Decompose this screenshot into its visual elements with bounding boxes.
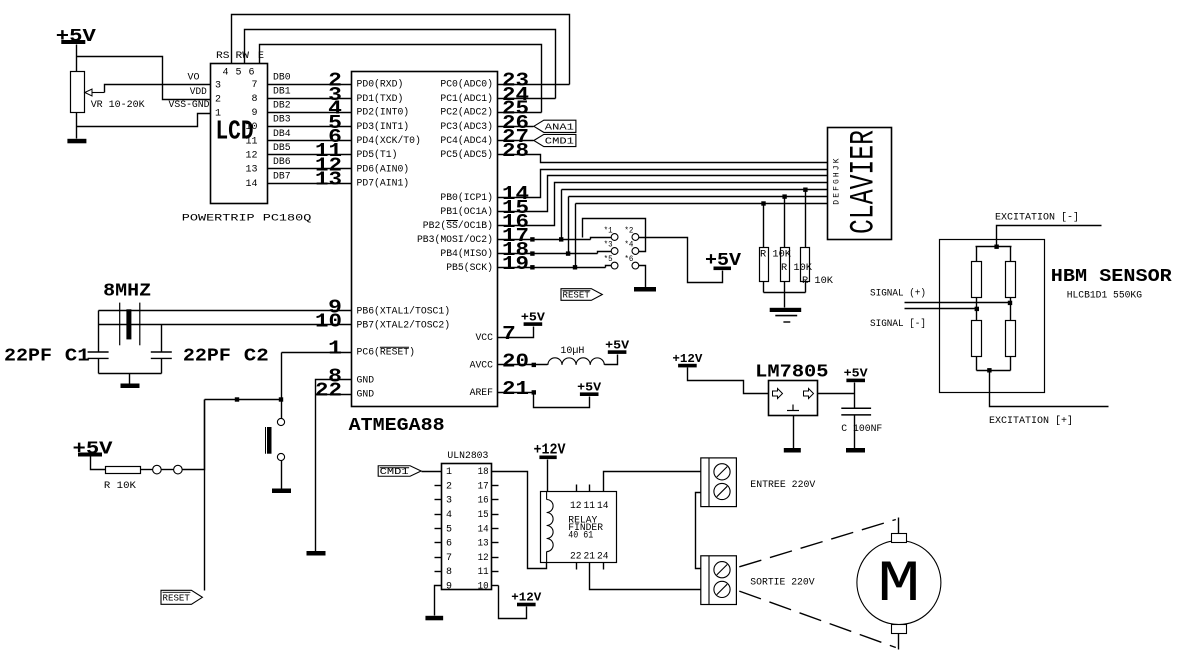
net flag CMD1 at ULN input <box>378 466 421 477</box>
ATMEGA pin label VCC <box>475 333 493 344</box>
ATMEGA pin number 13 <box>315 169 342 191</box>
svg-text:DB2: DB2 <box>273 101 291 112</box>
wire bridge top-left <box>976 247 978 262</box>
ATMEGA pin number 6 <box>328 126 342 148</box>
svg-text:24: 24 <box>597 552 609 563</box>
ground under LM7805 <box>784 448 801 453</box>
clavier pin letter G <box>833 179 842 184</box>
crystal X1 8MHZ <box>120 303 140 346</box>
ATMEGA pin label AVCC <box>470 361 493 372</box>
svg-text:EXCITATION [-]: EXCITATION [-] <box>995 212 1079 224</box>
junction signal minus <box>975 307 979 311</box>
junction on reset net <box>235 397 239 401</box>
junction clavier E to resistor <box>782 194 786 198</box>
svg-text:R 10K: R 10K <box>802 276 833 287</box>
wire output riser to +5V <box>854 383 856 394</box>
svg-text:EXCITATION [+]: EXCITATION [+] <box>989 415 1073 427</box>
junction reset net at button <box>279 397 283 401</box>
wire PC0 row to bus <box>498 84 570 86</box>
svg-text:22PF: 22PF <box>4 347 52 367</box>
relay stub pin 12 <box>576 485 578 492</box>
ground under capacitor C3 <box>846 448 865 453</box>
svg-text:14: 14 <box>597 501 609 512</box>
ATMEGA pin label PD7(AIN1) <box>357 178 410 190</box>
svg-text:SORTIE 220V: SORTIE 220V <box>750 578 814 589</box>
ATMEGA pin number 28 <box>502 140 529 162</box>
ULN pin number 2 <box>446 481 452 492</box>
label 8MHZ <box>103 281 151 301</box>
LCD pin number 11 <box>245 136 257 147</box>
wire PC5 to clavier pin K <box>498 155 828 163</box>
svg-text:7: 7 <box>446 553 452 564</box>
ATMEGA pin number 5 <box>328 112 342 134</box>
wire LCD DB3 to ATMEGA PD3 <box>268 126 352 128</box>
ULN pin number 8 <box>446 567 452 578</box>
ULN pin number 1 <box>446 467 452 478</box>
wire LCD DB1 to ATMEGA PD1 <box>268 98 352 100</box>
ULN left stub pin 4 <box>435 514 442 516</box>
ULN pin number 15 <box>478 510 489 521</box>
wire rail to ground <box>129 374 131 384</box>
label SORTIE 220V <box>750 578 814 589</box>
svg-text:PD5(T1): PD5(T1) <box>357 149 398 161</box>
ULN left stub pin 8 <box>435 571 442 573</box>
svg-text:6: 6 <box>248 68 254 79</box>
svg-text:PD6(AIN0): PD6(AIN0) <box>357 163 410 175</box>
svg-text:H: H <box>833 172 842 177</box>
ATMEGA pin label PD6(AIN0) <box>357 163 410 175</box>
svg-text:G: G <box>833 179 842 184</box>
wire +5V to resistor R4 <box>91 457 106 470</box>
label LM7805 <box>755 363 828 383</box>
LCD pin number 13 <box>245 165 257 176</box>
svg-text:HBM SENSOR: HBM SENSOR <box>1051 267 1172 287</box>
svg-text:PC1(ADC1): PC1(ADC1) <box>440 93 493 105</box>
ULN left stub pin 2 <box>435 485 442 487</box>
svg-text:22: 22 <box>570 552 582 563</box>
wire bus LCD RW to PC1 <box>245 30 556 99</box>
wire to capacitor C1 <box>98 311 100 353</box>
ATMEGA pin label PC2(ADC2) <box>440 107 493 119</box>
wire LCD DB7 to ATMEGA PD7 <box>268 183 352 185</box>
svg-text:ATMEGA88: ATMEGA88 <box>349 416 445 436</box>
ATMEGA pin label PC1(ADC1) <box>440 93 493 105</box>
LM7805 ground symbol <box>787 405 799 411</box>
wire bridge bottom node <box>977 370 1011 372</box>
LCD pin number 8 <box>251 94 257 105</box>
ULN pin number 14 <box>478 524 489 535</box>
svg-text:PB1(OC1A): PB1(OC1A) <box>440 206 493 218</box>
ISP pad *2 <box>632 234 639 241</box>
label ATMEGA88 <box>349 416 445 436</box>
ULN pin number 16 <box>478 496 489 507</box>
svg-text:1: 1 <box>446 467 452 478</box>
svg-text:3: 3 <box>446 496 452 507</box>
svg-text:14: 14 <box>245 179 257 190</box>
wire ULN pin 18 to relay coil <box>492 472 547 569</box>
ATMEGA pin number 20 <box>502 351 529 373</box>
power symbol +5V at LM7805 output <box>844 368 868 383</box>
LCD data label DB4 <box>273 129 291 140</box>
ULN pin number 12 <box>478 553 489 564</box>
svg-text:GND: GND <box>357 375 375 386</box>
svg-text:LM7805: LM7805 <box>755 363 828 383</box>
ULN pin number 10 <box>478 582 489 593</box>
ATMEGA pin number 24 <box>502 84 529 106</box>
power symbol +12V at LM7805 input <box>672 353 702 368</box>
svg-text:J: J <box>833 165 842 170</box>
LCD pin number 1 <box>215 109 221 120</box>
svg-text:7: 7 <box>251 80 257 91</box>
wire PB2 to clavier pin G <box>498 183 828 226</box>
dashed line SORTIE to motor bottom <box>739 591 896 647</box>
relay stub pin 11 <box>589 485 591 492</box>
LCD data label DB5 <box>273 143 291 154</box>
svg-text:21: 21 <box>584 552 596 563</box>
overline on PC6 RESET <box>380 346 409 348</box>
svg-text:8: 8 <box>251 94 257 105</box>
svg-text:10: 10 <box>245 122 257 133</box>
svg-text:13: 13 <box>315 169 342 191</box>
svg-text:20: 20 <box>502 351 529 373</box>
label LCD <box>216 117 254 147</box>
wire jumper to reset net <box>183 400 205 470</box>
ULN right stub pin 11 <box>492 571 499 573</box>
LCD pin number 6 <box>248 68 254 79</box>
ATMEGA pin number 21 <box>502 378 529 400</box>
junction PB3 riser <box>559 237 563 241</box>
power symbol +5V at AVCC <box>605 339 629 354</box>
ULN left stub pin 7 <box>435 557 442 559</box>
svg-text:22PF: 22PF <box>183 347 231 367</box>
wire reset net horizontal <box>205 399 282 401</box>
ATMEGA pin label PB5(SCK) <box>446 262 493 274</box>
svg-text:AREF: AREF <box>470 388 493 399</box>
ATMEGA pin number 22 <box>315 380 342 402</box>
svg-text:11: 11 <box>245 136 257 147</box>
ATMEGA pin label PB0(ICP1) <box>440 192 493 204</box>
label C 100NF <box>841 424 882 435</box>
wire reset net riser to PC6 <box>281 353 283 400</box>
label M motor <box>877 553 920 618</box>
power symbol +5V at AREF <box>577 381 601 396</box>
wire clavier F to resistor R3 <box>805 190 807 248</box>
capacitor C1 22PF <box>88 352 109 358</box>
LM7805 output arrow <box>804 389 814 399</box>
net flag RESET at ISP <box>561 289 602 301</box>
label HLCB1D1 550KG <box>1067 291 1142 302</box>
svg-text:CMD1: CMD1 <box>545 136 574 147</box>
ATMEGA pin label PB7(XTAL2/TOSC2) <box>357 319 451 331</box>
relay stub pin 22 <box>576 563 578 570</box>
svg-text:DB3: DB3 <box>273 115 291 126</box>
ISP pad *1 <box>611 234 618 241</box>
wire LCD DB0 to ATMEGA PD0 <box>268 84 352 86</box>
svg-text:ULN2803: ULN2803 <box>447 451 488 462</box>
ATMEGA pin number 18 <box>502 239 529 261</box>
svg-text:M: M <box>877 553 920 618</box>
net flag CMD1 <box>534 134 576 146</box>
wire clavier E to resistor R2 <box>784 197 786 248</box>
svg-text:4: 4 <box>446 510 452 521</box>
svg-text:DB1: DB1 <box>273 87 291 98</box>
wire potentiometer bottom to ground <box>76 113 78 139</box>
LCD pin label VO <box>188 72 200 83</box>
svg-text:RS: RS <box>216 51 230 62</box>
wire bridge bottom-left <box>976 357 978 371</box>
ground for ATMEGA GND pins <box>307 551 326 556</box>
ATMEGA pin number 27 <box>502 126 529 148</box>
power symbol +5V (potentiometer supply) <box>56 27 96 47</box>
label R 10K (R2) <box>781 263 812 274</box>
ATMEGA pin number 14 <box>502 183 529 205</box>
svg-text:SIGNAL (+): SIGNAL (+) <box>870 288 926 300</box>
wire bridge bottom-right <box>1010 357 1012 371</box>
label FINDER <box>568 523 603 534</box>
label VR 10-20K <box>91 100 145 111</box>
svg-text:12: 12 <box>245 150 257 161</box>
inductor L1 10uH <box>548 358 604 365</box>
svg-text:PB7(XTAL2/TOSC2): PB7(XTAL2/TOSC2) <box>357 319 451 331</box>
ATMEGA pin number 2 <box>328 70 342 92</box>
dashed line SORTIE to motor top <box>739 520 896 567</box>
ATMEGA pin number 4 <box>328 98 342 120</box>
LCD pin number 7 <box>251 80 257 91</box>
wire AVCC to inductor <box>498 364 548 366</box>
label R 10K reset <box>104 481 136 492</box>
wire ULN pin 9 to ground <box>435 586 442 616</box>
svg-text:HLCB1D1 550KG: HLCB1D1 550KG <box>1067 291 1142 302</box>
ATMEGA pin label PC4(ADC4) <box>440 135 493 147</box>
relay coil <box>547 492 554 562</box>
junction on AVCC wire <box>532 363 536 367</box>
ULN pin number 9 <box>446 582 452 593</box>
relay stub pin 24 <box>603 563 605 570</box>
LCD data label DB3 <box>273 115 291 126</box>
junction PB4 riser <box>566 251 570 255</box>
ULN pin number 7 <box>446 553 452 564</box>
wire VCC to +5V <box>498 327 534 338</box>
ATMEGA pin number 26 <box>502 112 529 134</box>
wire signal plus <box>905 302 1011 304</box>
LCD data label DB0 <box>273 72 291 83</box>
wire capacitor ground rail <box>99 373 162 375</box>
svg-text:ENTREE 220V: ENTREE 220V <box>750 480 815 491</box>
svg-text:12: 12 <box>570 501 582 512</box>
label HBM SENSOR <box>1051 267 1172 287</box>
wire PB3 into pad *1 <box>591 238 612 240</box>
svg-text:RW: RW <box>236 51 250 62</box>
ISP pad label *2 <box>624 227 633 236</box>
LCD pin number 4 <box>222 68 228 79</box>
junction on AREF wire <box>532 390 536 394</box>
svg-text:VR 10-20K: VR 10-20K <box>91 100 145 111</box>
svg-text:10µH: 10µH <box>560 346 584 357</box>
svg-text:6: 6 <box>446 539 452 550</box>
svg-text:SIGNAL [-]: SIGNAL [-] <box>870 318 926 330</box>
wire to capacitor C2 <box>161 325 163 353</box>
label C1 <box>65 347 90 367</box>
svg-text:E: E <box>833 193 842 198</box>
ISP pad *4 <box>632 248 639 255</box>
wire PC1 row to bus <box>498 98 556 100</box>
svg-text:PC6(RESET): PC6(RESET) <box>357 347 416 359</box>
svg-text:PB4(MISO): PB4(MISO) <box>440 248 493 260</box>
wire to capacitor C3 <box>854 394 856 409</box>
label R 10K (R1) <box>760 250 791 261</box>
ATMEGA pin label PB6(XTAL1/TOSC1) <box>357 306 451 318</box>
wire AREF loop to +5V <box>534 393 590 408</box>
wire LCD VSS-GND pin 1 to ground net <box>77 114 211 127</box>
overline on PB2 SS <box>446 220 458 222</box>
ISP pad label *3 <box>604 241 613 250</box>
wire R2 bottom to rail <box>784 282 786 293</box>
ULN right stub pin 16 <box>492 499 499 501</box>
svg-text:POWERTRIP PC180Q: POWERTRIP PC180Q <box>182 214 311 225</box>
ATMEGA pin number 1 <box>328 338 342 360</box>
ATMEGA pin label PB1(OC1A) <box>440 206 493 218</box>
wire PB5 riser to clavier D row <box>575 204 577 268</box>
svg-text:PC5(ADC5): PC5(ADC5) <box>440 149 493 161</box>
wire LCD DB6 to ATMEGA PD6 <box>268 168 352 170</box>
svg-text:*2: *2 <box>624 227 633 236</box>
svg-text:PD7(AIN1): PD7(AIN1) <box>357 178 410 190</box>
wire excitation minus to bridge top <box>997 226 1102 247</box>
ULN pin number 13 <box>478 539 489 550</box>
ground under button <box>272 489 291 494</box>
wire reset net to RESET flag <box>204 400 206 591</box>
ULN right stub pin 14 <box>492 528 499 530</box>
label EXCITATION plus <box>989 415 1073 427</box>
ATMEGA pin label PD2(INT0) <box>357 107 410 119</box>
junction on PB5 row <box>530 265 534 269</box>
ground under crystal <box>121 384 140 389</box>
bridge resistor bottom-left <box>972 321 982 357</box>
terminal block SORTIE <box>701 556 737 605</box>
svg-text:10: 10 <box>478 582 489 593</box>
svg-text:*3: *3 <box>604 241 613 250</box>
wire C2 bottom <box>161 359 163 374</box>
label EXCITATION minus <box>995 212 1079 224</box>
svg-text:15: 15 <box>478 510 489 521</box>
LCD data label DB7 <box>273 171 291 182</box>
svg-text:10: 10 <box>315 310 342 332</box>
ULN left stub pin 3 <box>435 499 442 501</box>
svg-text:7: 7 <box>502 323 516 345</box>
wire GND pin 8 <box>316 380 352 552</box>
svg-text:C1: C1 <box>65 347 90 367</box>
wire bridge right mid <box>1010 298 1012 321</box>
ATMEGA pin label PC6(RESET) <box>357 347 416 359</box>
wire clavier D to resistor R1 <box>763 204 765 248</box>
svg-text:VCC: VCC <box>475 333 493 344</box>
wire PB4 row to ISP <box>498 253 598 255</box>
earth ground under resistors <box>770 308 802 322</box>
ULN left stub pin 6 <box>435 542 442 544</box>
ATMEGA pin label PC3(ADC3) <box>440 121 493 133</box>
wire PB3 row to ISP <box>498 239 591 241</box>
svg-text:1: 1 <box>215 109 221 120</box>
relay pin label 11 <box>584 501 596 512</box>
wire pad *6 to ground <box>639 266 646 288</box>
LCD pin label VSS-GND <box>169 100 210 111</box>
svg-text:VDD: VDD <box>190 87 207 98</box>
svg-text:*1: *1 <box>604 227 613 236</box>
wire +5V branch to LCD VDD pin 2 <box>77 57 211 100</box>
resistor R1 10K body <box>760 248 769 282</box>
wire motor top stub <box>898 518 900 534</box>
label SIGNAL minus <box>870 318 926 330</box>
ISP pad *3 <box>611 248 618 255</box>
ATMEGA pin number 15 <box>502 197 529 219</box>
ATMEGA pin number 7 <box>502 323 516 345</box>
LCD pin number 5 <box>235 68 241 79</box>
ISP pad label *4 <box>624 241 633 250</box>
wire bridge left mid <box>976 298 978 321</box>
wire clavier pin E row <box>569 196 828 198</box>
svg-text:PB5(SCK): PB5(SCK) <box>446 262 493 274</box>
ATMEGA pin number 12 <box>315 154 342 176</box>
wire inductor to +5V <box>605 355 618 365</box>
wire AREF <box>498 392 534 394</box>
label 22PF (C1) <box>4 347 52 367</box>
ULN right stub pin 17 <box>492 485 499 487</box>
svg-text:13: 13 <box>478 539 489 550</box>
wire +12V to LM7805 input <box>688 368 769 394</box>
driver U4 ULN2803 body <box>442 464 492 590</box>
wire ENTREE bottom to SORTIE top <box>696 493 701 569</box>
svg-text:*4: *4 <box>624 241 633 250</box>
wire signal minus <box>905 308 977 310</box>
label SIGNAL plus <box>870 288 926 300</box>
ATMEGA pin number 9 <box>328 297 342 319</box>
svg-text:PB6(XTAL1/TOSC1): PB6(XTAL1/TOSC1) <box>357 306 451 318</box>
svg-text:VO: VO <box>188 72 200 83</box>
svg-text:R 10K: R 10K <box>760 250 791 261</box>
svg-text:PB0(ICP1): PB0(ICP1) <box>440 192 493 204</box>
svg-text:C2: C2 <box>244 347 269 367</box>
ATMEGA pin label PD3(INT1) <box>357 121 410 133</box>
ULN pin number 4 <box>446 510 452 521</box>
ISP pad label *6 <box>624 255 633 264</box>
svg-text:RESET: RESET <box>163 592 191 603</box>
svg-text:11: 11 <box>478 567 489 578</box>
wire rail to earth ground <box>784 293 786 308</box>
ULN right stub pin 15 <box>492 514 499 516</box>
ULN right stub pin 10 <box>492 585 499 587</box>
junction PB5 riser <box>573 265 577 269</box>
svg-text:4: 4 <box>222 68 228 79</box>
clavier pin letter K <box>833 158 842 163</box>
wire bus LCD RS to PC0 <box>232 15 570 85</box>
ATMEGA pin label PD1(TXD) <box>357 93 404 105</box>
ATMEGA pin number 19 <box>502 253 529 275</box>
ATMEGA pin label PB4(MISO) <box>440 248 493 260</box>
svg-text:PC2(ADC2): PC2(ADC2) <box>440 107 493 119</box>
terminal block ENTREE <box>701 458 737 507</box>
svg-text:3: 3 <box>215 81 221 92</box>
ATMEGA pin number 17 <box>502 225 529 247</box>
LCD pin label RS <box>216 51 230 62</box>
load cell HBM SENSOR body <box>940 240 1045 393</box>
label ULN2803 <box>447 451 488 462</box>
label 40 61 <box>568 530 593 541</box>
junction bridge top <box>994 245 998 249</box>
LCD pin label VDD <box>190 87 207 98</box>
wire LM7805 ground pin <box>793 416 795 449</box>
wire pad *2 to +5V <box>639 238 723 283</box>
svg-text:PC3(ADC3): PC3(ADC3) <box>440 121 493 133</box>
